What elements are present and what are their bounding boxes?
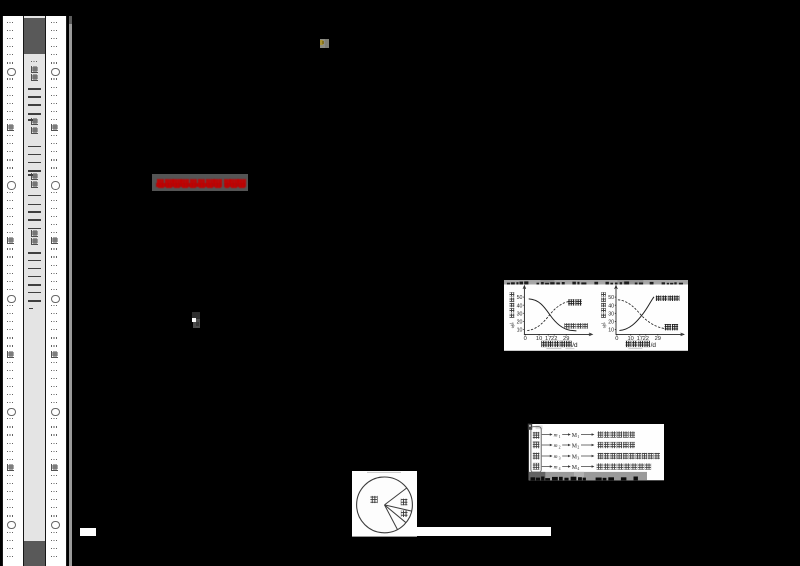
pie label 甲	[370, 496, 377, 503]
white figure background	[352, 471, 417, 537]
figure 1: dry-weight percentage line charts (scanned image)	[504, 280, 689, 351]
y axis caption 干重百分率/%	[509, 293, 514, 297]
sector line small slice	[385, 505, 398, 530]
svg-text:3: 3	[559, 456, 561, 460]
svg-text:20: 20	[608, 320, 614, 326]
svg-text:m: m	[554, 465, 558, 471]
dark grey block top of middle column	[24, 18, 44, 55]
row 2: m2 -> M2 -> description	[542, 444, 551, 446]
y axis	[615, 287, 617, 335]
label 班级	[31, 173, 38, 180]
label 学校	[31, 66, 38, 73]
white figure background	[529, 424, 664, 480]
svg-text:40: 40	[516, 304, 522, 310]
seal-line left column dashed rows / circles / chars 外装订线	[7, 22, 14, 23]
chart B x caption 萌发天数/d	[625, 341, 631, 347]
rounded box 化学元素	[531, 427, 541, 472]
chart B label 脂肪	[664, 324, 670, 330]
svg-text:2: 2	[559, 445, 561, 449]
seal-line middle grey column (school/name/class/number)	[23, 16, 46, 566]
seal-line left white column background	[2, 16, 24, 566]
svg-text:m: m	[554, 433, 558, 439]
svg-text:2: 2	[577, 445, 579, 449]
svg-text:4: 4	[577, 467, 579, 471]
label 姓名	[31, 118, 38, 125]
svg-text:3: 3	[577, 456, 579, 460]
sector line 1 (top of 乙)	[385, 488, 407, 505]
chart B solid curve (soluble sugar, ascending)	[619, 297, 654, 331]
seal-line right column dashed rows / circles / chars 内装订线	[51, 22, 58, 23]
small broken-image icon near top	[320, 39, 329, 48]
chart A solid curve (soluble sugar, descending)	[528, 299, 576, 331]
x axis	[615, 334, 682, 336]
svg-text:30: 30	[608, 312, 614, 318]
white highlighted text-line strip right of pie	[417, 527, 551, 535]
svg-text:10: 10	[608, 328, 614, 334]
figure 3: pie chart 甲乙丙 (scanned image)	[352, 471, 417, 537]
x axis	[523, 334, 590, 336]
svg-text:40: 40	[608, 304, 614, 310]
dark grey block bottom of middle column	[24, 541, 44, 566]
chart A label 可溶性糖	[564, 324, 569, 329]
white figure background	[504, 285, 689, 351]
svg-text:20: 20	[516, 320, 522, 326]
row 3: m3 -> M3 -> description	[542, 455, 551, 457]
svg-text:1: 1	[577, 435, 579, 439]
chart B label 可溶性糖	[655, 296, 660, 301]
seal-line right white column background	[46, 16, 67, 566]
row 4: m4 -> M4 -> description	[542, 466, 551, 468]
pie label 乙	[401, 499, 408, 506]
row 1: m1 -> M1 -> description	[542, 434, 551, 436]
svg-text:0: 0	[523, 337, 526, 343]
tiny dark glyph fragment	[192, 312, 200, 319]
svg-text:50: 50	[608, 296, 614, 302]
sector line 丙 lower	[385, 505, 406, 523]
svg-text:0: 0	[615, 337, 618, 343]
svg-text:50: 50	[516, 296, 522, 302]
y axis caption 干重百分率/%	[601, 293, 606, 297]
pie circle	[357, 477, 413, 533]
label 考号	[31, 230, 38, 237]
small white highlight rect bottom-left	[80, 528, 96, 536]
figure 2: 化学元素 flow diagram (scanned image)	[526, 420, 666, 482]
svg-text:30: 30	[516, 312, 522, 318]
scan bottom band with clipped text tops	[529, 472, 647, 480]
svg-text:/d: /d	[650, 342, 656, 349]
svg-text:m: m	[554, 454, 558, 460]
chart B dashed curve (fat, descending)	[617, 300, 667, 329]
svg-text:m: m	[554, 443, 558, 449]
pie label 丙	[401, 510, 408, 517]
grey edge strip right of seal area (dark top)	[69, 16, 72, 25]
svg-text:10: 10	[516, 328, 522, 334]
sector line 乙/丙	[385, 505, 412, 511]
chart A dashed curve (fat, ascending)	[527, 302, 570, 331]
svg-text:/d: /d	[572, 342, 578, 349]
svg-text:1: 1	[559, 435, 561, 439]
dark corner notch	[528, 424, 532, 430]
red heading on grey box	[152, 174, 247, 192]
chart A x caption 开花后天数/d	[541, 341, 547, 347]
chart A label 脂肪	[568, 300, 574, 306]
svg-text:4: 4	[559, 467, 561, 471]
y axis	[523, 287, 525, 335]
scan top band with clipped text remnants	[504, 280, 689, 285]
